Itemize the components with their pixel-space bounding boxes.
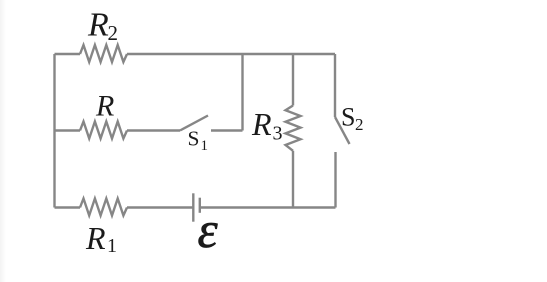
svg-text:R: R [251, 106, 272, 142]
svg-text:3: 3 [273, 123, 283, 145]
svg-text:2: 2 [108, 21, 119, 45]
svg-text:R: R [85, 220, 106, 256]
resistor R1 [80, 199, 127, 216]
switch S1 blade [180, 116, 208, 131]
wire top rail left segment [55, 53, 81, 55]
battery EMF long plate [192, 193, 194, 221]
svg-text:2: 2 [355, 115, 364, 134]
resistor R3 [286, 106, 301, 151]
svg-text:R: R [87, 7, 109, 44]
wire left rail [53, 54, 55, 208]
wire R3 branch upper [292, 54, 294, 106]
svg-text:1: 1 [201, 138, 209, 154]
wire bottom rail to battery [127, 206, 193, 208]
wire S2 branch lower [334, 152, 336, 208]
wire bottom rail left segment [55, 206, 81, 208]
svg-text:S: S [188, 127, 200, 151]
svg-text:R: R [95, 90, 114, 123]
svg-text:ε: ε [198, 203, 219, 259]
wire R3 branch lower [292, 151, 294, 208]
resistor R [80, 122, 127, 139]
resistor R2 [80, 45, 127, 62]
svg-text:1: 1 [107, 235, 117, 257]
wire middle rail to switch S1 [127, 129, 180, 131]
wire middle rail left segment [55, 129, 81, 131]
wire S1 contact segment [211, 129, 243, 131]
svg-text:S: S [341, 102, 355, 131]
battery EMF short plate [199, 198, 201, 213]
wire bottom rail right segment [200, 206, 336, 208]
wire S2 branch upper (right rail) [334, 54, 336, 117]
wire vertical from S1 contact up to top rail [241, 54, 243, 131]
wire top rail right segment [127, 53, 335, 55]
switch S2 blade [335, 117, 350, 144]
